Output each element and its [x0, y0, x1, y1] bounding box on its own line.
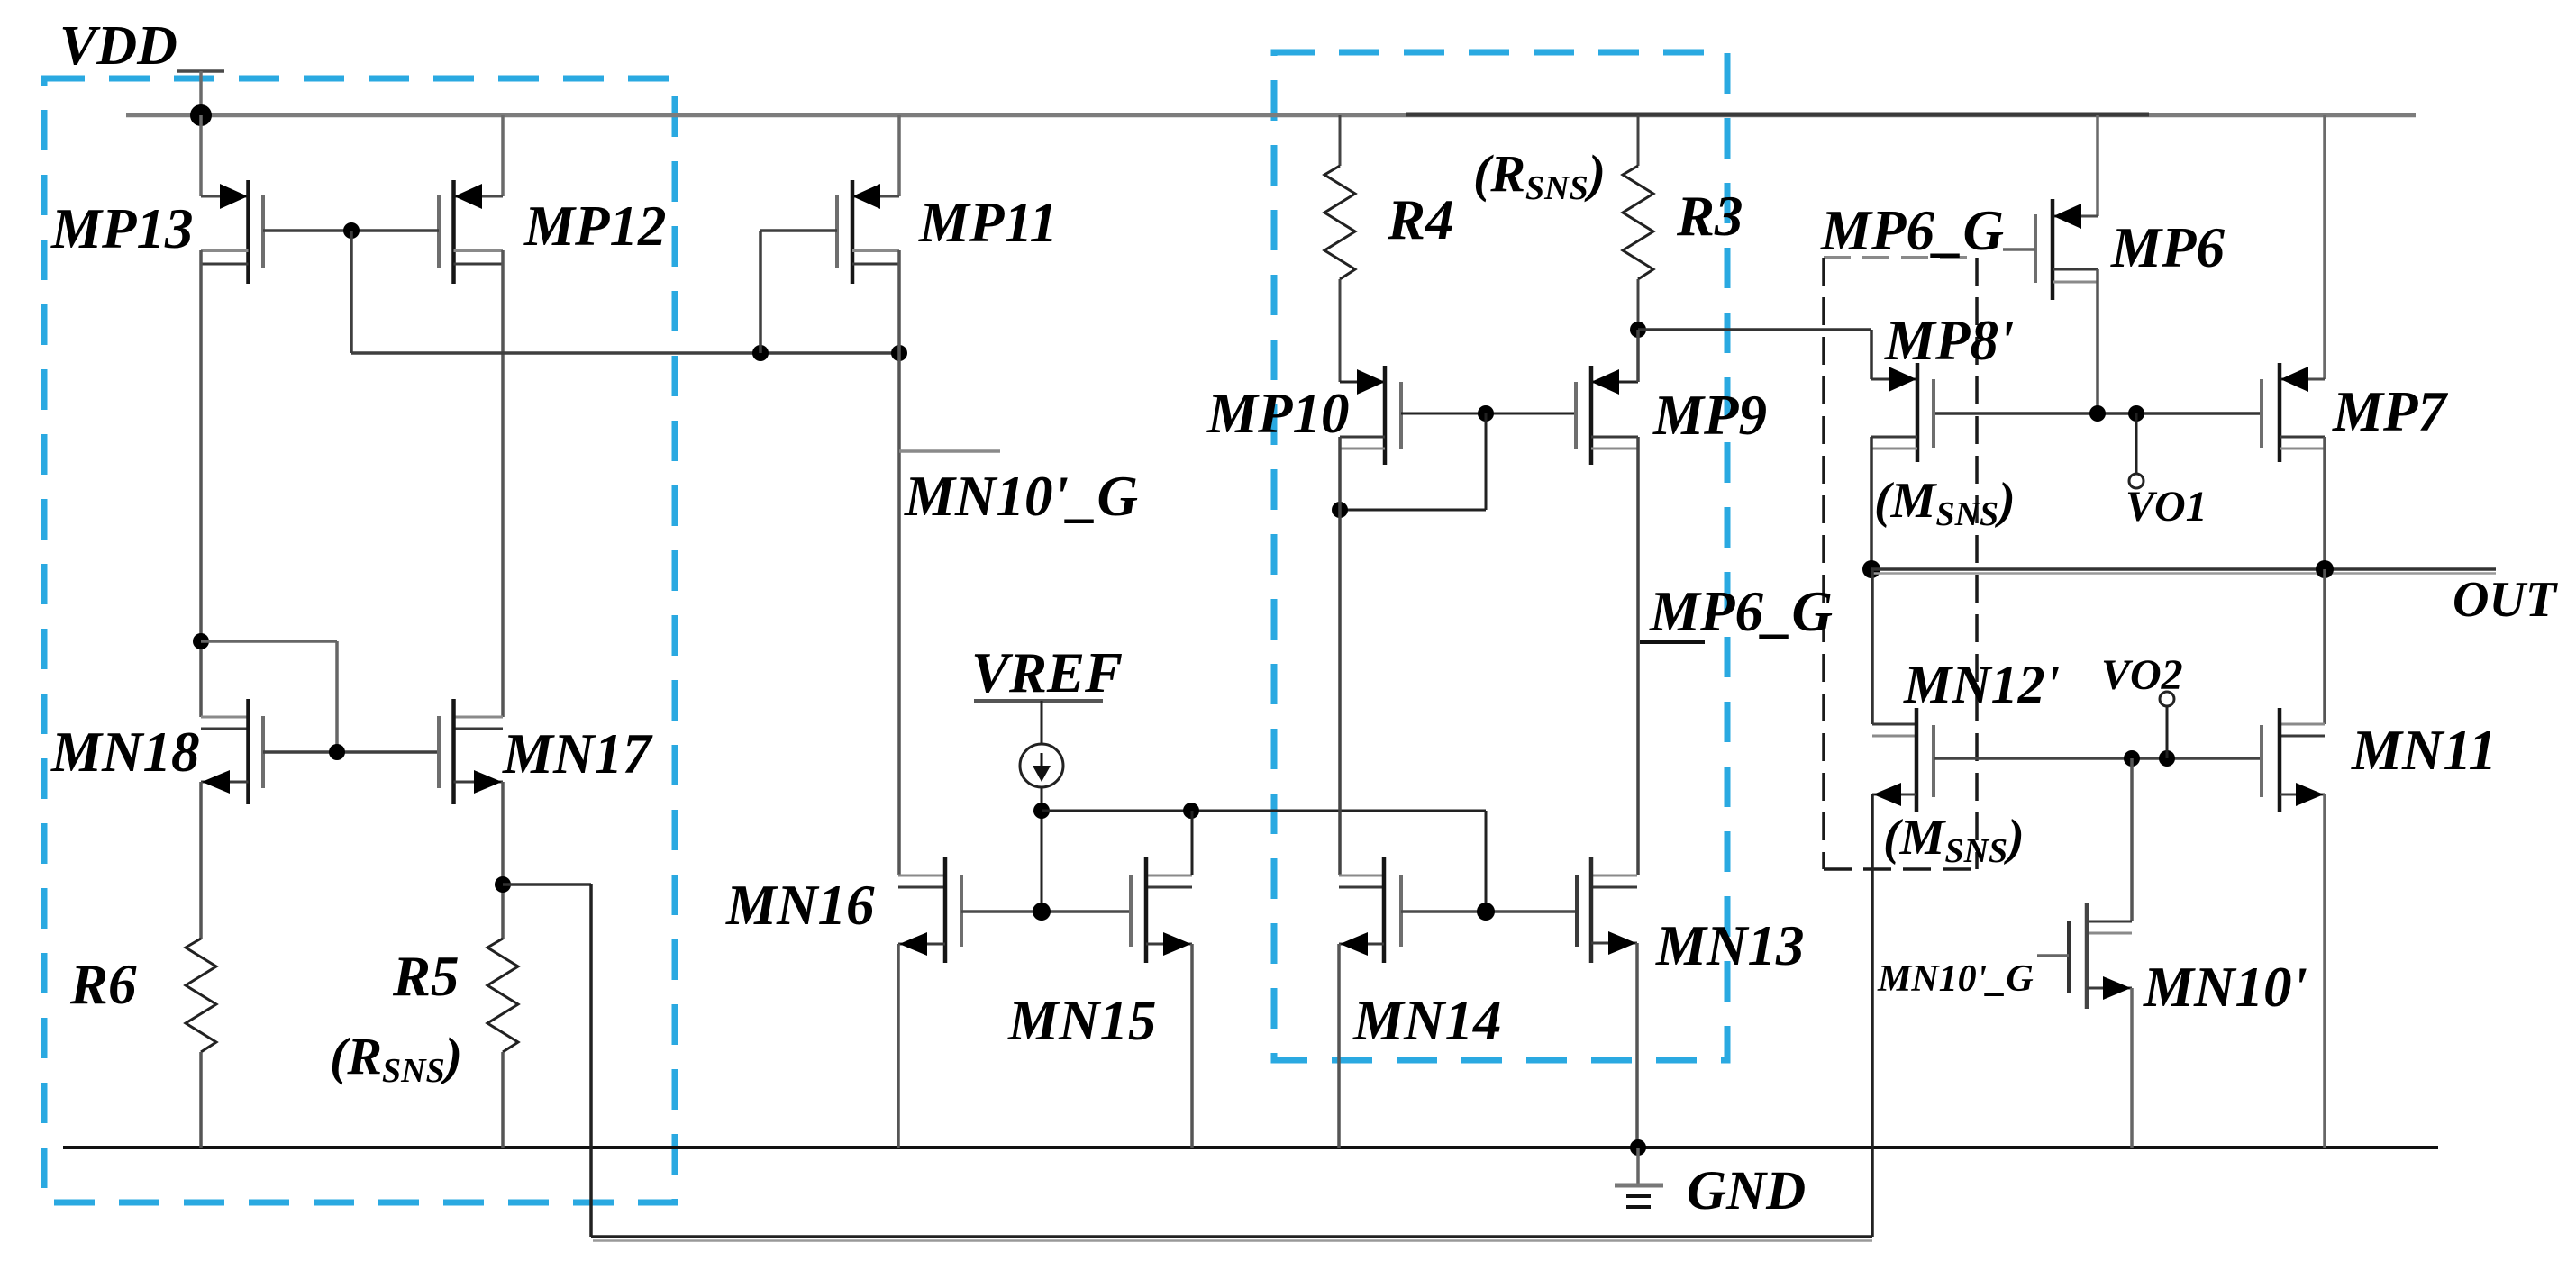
svg-text:MP9: MP9 [1652, 384, 1767, 447]
transistor MN18 [201, 699, 263, 804]
wire MP11 gate riser [759, 231, 762, 353]
resistor R5 [487, 939, 518, 1052]
transistor MN10' [2037, 758, 2132, 1009]
svg-text:MN17: MN17 [502, 722, 653, 785]
transistor MN17 [439, 699, 503, 804]
transistor MN12' [1872, 569, 1934, 812]
VREF underline [974, 699, 1103, 703]
wire R5 tap to feedback [503, 883, 591, 886]
net stub MN10'_G [899, 449, 1000, 453]
black dashed box (MSNS pair) [1824, 258, 1977, 869]
wire MP10 diode link [1485, 413, 1488, 510]
svg-text:MP6_G: MP6_G [1820, 199, 2004, 262]
transistor MN16 [898, 857, 961, 963]
node dot bias/MP11 gate tap [752, 345, 769, 361]
node dot gate bus [343, 222, 360, 239]
node dot VO2 tap [2159, 750, 2175, 767]
wire MN14 source to GND [1337, 944, 1341, 1148]
VDD rail dark segment [1406, 113, 2149, 117]
wire MP10 drain down to MN14 [1338, 437, 1342, 875]
VDD rail [126, 113, 2416, 118]
svg-text:VO1: VO1 [2125, 483, 2207, 531]
wire MN18 source to R6 [199, 782, 203, 939]
wire MN12'/MN11 gate bus (VO2 node) [1934, 757, 2262, 760]
node dot MN10' drain [2124, 750, 2140, 767]
svg-text:MP6: MP6 [2110, 216, 2226, 279]
node dot OUT/MP7/MN11 [2316, 560, 2334, 578]
GND rail [63, 1146, 2438, 1149]
terminal VO1 [2135, 413, 2138, 474]
resistor R3 [1637, 115, 1640, 166]
wire MP9 drain down to MN13 [1636, 437, 1640, 875]
node dot R3/MP9/MP8' [1630, 322, 1646, 338]
transistor MP8' [1871, 363, 1934, 462]
wire MP13 drain down to MN18 [199, 250, 203, 717]
svg-text:MN12': MN12' [1903, 655, 2060, 714]
node dot VDD/MP13 [190, 104, 212, 126]
wire MP7 drain down to OUT [2323, 437, 2326, 569]
wire VDD tick to rail [199, 71, 203, 115]
svg-text:VO2: VO2 [2101, 651, 2183, 699]
wire MN16 source to GND [897, 944, 900, 1148]
wire MN15 source to GND [1190, 944, 1194, 1148]
wire MN10' source to GND [2130, 988, 2134, 1148]
svg-text:OUT: OUT [2453, 572, 2559, 628]
node dot VO1 tap [2128, 405, 2144, 422]
wire MN18 gate link [193, 633, 209, 649]
svg-text:MN16: MN16 [725, 874, 875, 937]
wire MN15 drain to VREF node [1191, 811, 1194, 875]
node dot MP10 gate [1478, 405, 1494, 422]
svg-text:GND: GND [1687, 1161, 1806, 1221]
svg-text:VDD: VDD [59, 15, 177, 77]
svg-text:MP7: MP7 [2332, 380, 2449, 443]
node dot MP6 drain [2089, 405, 2106, 422]
wire MN16/MN15 gate bus [961, 910, 1131, 913]
wire MN18/MN17 gate bus [263, 750, 439, 754]
transistor MP12 [439, 115, 503, 284]
wire MP13/MP12 gate bus [263, 229, 439, 232]
transistor MN13 [1577, 857, 1637, 963]
wire MP6 drain down [2096, 269, 2099, 413]
svg-text:MN10': MN10' [2143, 956, 2307, 1019]
wire MN12' source down to feedback [1871, 794, 1874, 1237]
transistor MN14 [1339, 857, 1401, 963]
node dot R5 tap [495, 876, 511, 893]
sense feedback wire (bottom) [591, 1235, 1872, 1238]
node dot VREF/MN15 drain [1183, 803, 1199, 819]
transistor MP7 [2262, 115, 2325, 462]
svg-text:R4: R4 [1387, 188, 1454, 251]
node dot MP10 drain [1332, 502, 1348, 518]
svg-text:MN13: MN13 [1655, 914, 1805, 977]
transistor MP6 [2003, 115, 2098, 300]
wire MN13 source to GND [1635, 943, 1639, 1148]
wire MN14/MN13 gate bus [1401, 910, 1577, 913]
wire VREF node bus [1042, 810, 1486, 812]
wire MP10/MP9 gate bus [1401, 413, 1576, 415]
wire MP8'/MP7 gate bus (VO1 node) [1934, 412, 2262, 415]
svg-text:MP12: MP12 [523, 195, 667, 258]
svg-text:R6: R6 [69, 953, 137, 1016]
terminal VO2 [2166, 706, 2169, 758]
wire gate bus down to bias rail [350, 231, 353, 353]
ground symbol [1615, 1148, 1663, 1207]
svg-text:MP11: MP11 [918, 191, 1058, 254]
transistor MP11 [760, 115, 899, 284]
svg-text:VREF: VREF [971, 641, 1123, 704]
node dot bias/MP11 drain [891, 345, 907, 361]
svg-text:MP6_G: MP6_G [1649, 580, 1833, 643]
node dot GND [1630, 1139, 1646, 1156]
transistor MP13 [201, 115, 263, 284]
transistor MP10 [1340, 366, 1401, 465]
svg-text:MP13: MP13 [50, 197, 194, 260]
blue dashed block 1 (left bias/sense block) [44, 78, 675, 1202]
node dot VREF/gates [1033, 903, 1051, 921]
wire MN11 source to GND [2323, 794, 2326, 1148]
svg-text:MN10'_G: MN10'_G [1877, 958, 2034, 1000]
svg-text:MN10'_G: MN10'_G [904, 465, 1138, 528]
wire MP11 drain down to MN16 [897, 250, 901, 875]
svg-text:MN15: MN15 [1007, 989, 1157, 1052]
node dot OUT/MP8' [1862, 560, 1880, 578]
VDD net tick [177, 69, 224, 73]
wire OUT [1871, 567, 2496, 571]
resistor R6 [186, 939, 216, 1052]
wire current source to VREF node [1041, 787, 1043, 912]
wire MN17 source to R5 [501, 782, 505, 939]
wire MP8' drain down to OUT [1870, 437, 1873, 569]
node dot gate bus/VREF [1477, 903, 1495, 921]
transistor MN11 [2262, 569, 2325, 812]
wire MP9 source from R3 [1636, 330, 1640, 382]
wire bias rail (MP11 gate node) [351, 351, 899, 355]
blue dashed block 2 (middle sense block) [1274, 52, 1727, 1060]
svg-text:MN11: MN11 [2351, 719, 2497, 782]
wire MP12 drain down to MN17 [501, 250, 505, 717]
transistor MP9 [1576, 366, 1638, 465]
node dot VREF [1033, 803, 1050, 819]
wire R3 node to MP8' source [1638, 328, 1871, 331]
current source I_VREF [1020, 744, 1063, 787]
svg-text:MP8': MP8' [1884, 309, 2015, 372]
svg-text:R5: R5 [392, 945, 460, 1008]
wire VREF bus down to MN14/MN13 gates [1485, 811, 1488, 912]
resistor R4 [1339, 115, 1342, 166]
wire VREF to current source [1041, 701, 1043, 744]
svg-text:MN14: MN14 [1352, 989, 1502, 1052]
svg-text:R3: R3 [1676, 185, 1743, 248]
transistor MN15 [1131, 857, 1192, 963]
svg-text:MN18: MN18 [50, 721, 200, 784]
node dot gate bus [329, 744, 345, 760]
svg-text:MP10: MP10 [1206, 382, 1350, 445]
